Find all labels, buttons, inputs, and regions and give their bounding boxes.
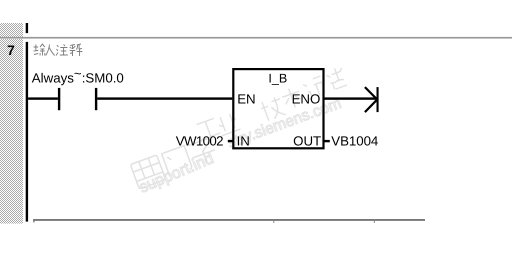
char 输 xyxy=(34,44,45,56)
svg-text:OUT: OUT xyxy=(293,134,321,149)
left power rail (network 7) xyxy=(26,42,28,222)
next network separator line (bottom) xyxy=(33,219,425,221)
open arrow (line continuation) xyxy=(365,87,378,112)
IN pin tick xyxy=(228,140,234,142)
contact bar right xyxy=(95,88,97,110)
watermark: lower-left tile CJK outline chars 西门子 xyxy=(130,138,218,189)
wire from contact to block EN xyxy=(97,97,232,99)
char 注 xyxy=(56,45,68,56)
svg-text:I_B: I_B xyxy=(268,72,287,86)
svg-text:7: 7 xyxy=(7,43,15,58)
network separator line (top) xyxy=(0,37,512,38)
wire from ENO to arrow xyxy=(325,97,377,99)
char 释 xyxy=(70,44,83,56)
left power rail stub of previous network xyxy=(26,23,28,33)
svg-text:VB1004: VB1004 xyxy=(331,133,378,148)
network number column (dithered gray) xyxy=(0,23,23,224)
OUT pin tick xyxy=(324,140,330,142)
contact bar left xyxy=(58,88,60,110)
function block I_B box xyxy=(233,69,323,148)
network comment text 输入注释 (gray CJK drawn as paths) xyxy=(34,44,83,56)
grid tick 1 xyxy=(273,221,274,223)
separator left end tick xyxy=(33,219,34,222)
char 入 xyxy=(46,45,55,56)
svg-text:Always~:SM0.0: Always~:SM0.0 xyxy=(32,66,124,86)
wire from rail to contact xyxy=(28,97,58,99)
grid tick 2 xyxy=(374,221,375,223)
svg-text:EN: EN xyxy=(237,91,255,106)
watermark: upper tile CJK outline chars 工业技术论坛 xyxy=(196,66,348,140)
